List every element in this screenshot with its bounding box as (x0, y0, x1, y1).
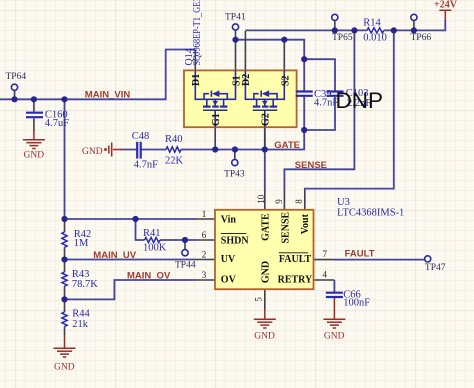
svg-text:R41: R41 (143, 228, 161, 239)
svg-text:TP44: TP44 (175, 261, 196, 271)
svg-text:GATE: GATE (261, 213, 272, 241)
svg-text:D1: D1 (191, 74, 202, 86)
svg-text:D2: D2 (241, 74, 252, 86)
svg-text:FAULT: FAULT (345, 249, 375, 260)
svg-text:6: 6 (202, 230, 207, 240)
svg-text:GND: GND (54, 362, 75, 372)
svg-text:RETRY: RETRY (278, 275, 313, 286)
svg-text:100nF: 100nF (343, 298, 370, 309)
svg-text:SENSE: SENSE (280, 211, 291, 243)
svg-text:SHDN: SHDN (221, 236, 250, 247)
svg-text:GATE: GATE (274, 140, 300, 151)
svg-text:UV: UV (221, 254, 236, 265)
svg-text:1M: 1M (74, 238, 89, 249)
svg-text:MAIN_VIN: MAIN_VIN (85, 89, 131, 100)
svg-text:Vin: Vin (221, 215, 237, 226)
svg-text:1: 1 (202, 209, 207, 219)
svg-text:OV: OV (221, 275, 237, 286)
svg-text:MAIN_UV: MAIN_UV (93, 250, 136, 261)
svg-text:GND: GND (324, 331, 345, 341)
svg-text:U3: U3 (337, 197, 350, 208)
svg-text:S2: S2 (281, 75, 292, 86)
svg-text:GND: GND (24, 150, 45, 160)
svg-text:DNP: DNP (336, 88, 384, 113)
svg-text:9: 9 (274, 199, 284, 204)
svg-text:GND: GND (261, 261, 272, 283)
svg-text:4: 4 (323, 269, 328, 279)
svg-text:21k: 21k (72, 319, 89, 330)
svg-text:C48: C48 (132, 131, 150, 142)
svg-text:TP65: TP65 (332, 33, 353, 43)
svg-text:G2: G2 (261, 113, 272, 126)
svg-text:100K: 100K (143, 243, 167, 254)
svg-text:4.7uF: 4.7uF (45, 118, 69, 129)
svg-text:GND: GND (82, 147, 103, 157)
svg-text:TP66: TP66 (411, 33, 432, 43)
svg-text:TP47: TP47 (425, 263, 446, 273)
svg-text:TP41: TP41 (225, 12, 246, 22)
svg-text:LTC4368IMS-1: LTC4368IMS-1 (337, 207, 404, 218)
svg-text:4.7nF: 4.7nF (134, 159, 158, 170)
svg-text:SENSE: SENSE (295, 160, 327, 171)
svg-text:GND: GND (254, 331, 275, 341)
svg-text:Vout: Vout (300, 213, 311, 234)
svg-text:2: 2 (202, 250, 207, 260)
svg-text:0.010: 0.010 (363, 33, 387, 44)
svg-text:5: 5 (254, 297, 264, 302)
svg-text:7: 7 (323, 249, 328, 259)
svg-text:MAIN_OV: MAIN_OV (127, 270, 171, 281)
svg-text:+24V: +24V (434, 0, 458, 11)
svg-text:FAULT: FAULT (279, 254, 312, 265)
svg-text:TP43: TP43 (224, 170, 245, 180)
svg-text:R40: R40 (165, 134, 183, 145)
svg-text:R14: R14 (363, 17, 381, 28)
svg-text:3: 3 (202, 270, 207, 280)
svg-text:10: 10 (256, 194, 266, 204)
svg-text:SQJ968EP-T1_GE3: SQJ968EP-T1_GE3 (192, 0, 203, 66)
svg-text:G1: G1 (211, 113, 222, 126)
svg-text:8: 8 (294, 199, 304, 204)
svg-text:TP64: TP64 (6, 72, 27, 82)
svg-text:22K: 22K (165, 155, 184, 166)
svg-text:78.7K: 78.7K (72, 279, 98, 290)
svg-text:R44: R44 (72, 308, 90, 319)
